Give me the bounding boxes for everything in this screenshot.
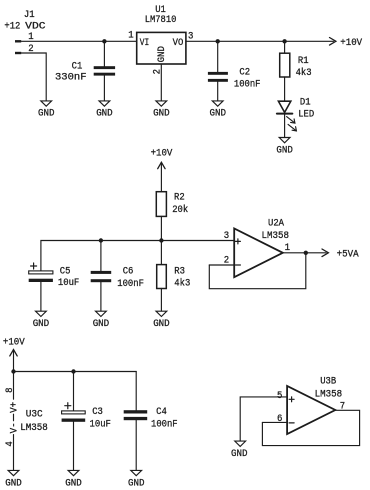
svg-text:VDC: VDC	[25, 22, 45, 33]
svg-text:1: 1	[128, 31, 133, 42]
ground R3	[156, 311, 167, 316]
wire U3B pin6	[262, 421, 287, 423]
wire R3 top	[160, 241, 162, 265]
svg-text:VO: VO	[173, 38, 184, 49]
svg-text:U2A: U2A	[268, 218, 284, 229]
power arrow +5VA	[322, 249, 328, 257]
svg-text:4k3: 4k3	[296, 67, 312, 79]
wire C3 to GND	[73, 422, 75, 470]
wire C6 top	[100, 241, 102, 271]
svg-text:20k: 20k	[172, 204, 188, 216]
junction U3C rail	[11, 369, 15, 373]
junction C1/J1	[102, 39, 106, 43]
svg-text:2: 2	[224, 255, 229, 266]
resistor R1 body	[280, 53, 290, 77]
capacitor C2 plates	[208, 72, 228, 82]
ground C2	[212, 101, 223, 106]
svg-text:4: 4	[5, 441, 16, 446]
op-amp U2A plus input mark	[235, 239, 240, 244]
svg-text:+10V: +10V	[3, 337, 25, 348]
power arrow +10V top right	[330, 38, 336, 46]
capacitor C3 plus sign	[65, 403, 71, 409]
svg-text:LED: LED	[298, 110, 314, 121]
svg-text:100nF: 100nF	[151, 419, 178, 430]
svg-text:LM358: LM358	[315, 390, 343, 401]
svg-text:8: 8	[5, 388, 16, 393]
svg-text:C4: C4	[156, 407, 167, 418]
svg-text:C3: C3	[92, 407, 103, 418]
wire C6 to GND	[100, 282, 102, 311]
op-amp U3B body	[287, 386, 335, 434]
svg-text:GND: GND	[276, 145, 293, 156]
wire U1 VO to +10V	[186, 40, 334, 42]
wire bottom bus	[14, 371, 137, 373]
connector J1 pad 1	[15, 40, 21, 42]
svg-text:100nF: 100nF	[234, 80, 261, 91]
wire U3C power rail	[13, 350, 15, 400]
svg-text:LM358: LM358	[262, 231, 290, 242]
svg-text:GND: GND	[33, 319, 50, 330]
svg-text:3: 3	[188, 31, 193, 42]
svg-text:D1: D1	[300, 98, 311, 109]
svg-text:C2: C2	[239, 67, 250, 78]
op-amp U3B plus input mark	[289, 397, 294, 402]
wire U3B feedback	[262, 410, 359, 445]
svg-text:1: 1	[28, 32, 33, 43]
svg-text:GND: GND	[93, 319, 110, 330]
ground U3B	[235, 441, 246, 446]
svg-text:U3C: U3C	[26, 409, 43, 420]
svg-text:GND: GND	[5, 478, 22, 489]
wire U2A output	[283, 252, 326, 254]
svg-text:2: 2	[153, 69, 164, 74]
svg-text:R3: R3	[174, 267, 185, 278]
ground C1	[99, 101, 110, 106]
capacitor C6 plates	[91, 271, 112, 282]
svg-text:C6: C6	[123, 266, 134, 277]
resistor R2 body	[156, 192, 166, 217]
op-amp U3B minus input mark	[289, 422, 294, 424]
svg-text:LM358: LM358	[20, 423, 48, 434]
ground symbols	[8, 101, 290, 476]
capacitor C5 bottom plate	[29, 279, 53, 282]
svg-text:+10V: +10V	[151, 149, 173, 160]
wire C4 drop	[135, 372, 137, 411]
capacitor C4 plates	[124, 410, 148, 420]
wire R2 to bus	[160, 216, 162, 240]
LED D1 cathode bar	[277, 113, 292, 115]
junction R2/R3	[159, 238, 163, 242]
svg-text:2: 2	[28, 44, 33, 55]
capacitor C5 top plate	[29, 271, 53, 274]
wire R3 to GND	[160, 289, 162, 311]
wire U1 pin2 to GND	[160, 64, 162, 101]
wire C2 top	[217, 41, 219, 72]
capacitor C5 plus sign	[31, 263, 37, 269]
svg-text:GND: GND	[153, 109, 170, 120]
svg-text:100nF: 100nF	[117, 279, 144, 290]
ground U3C	[8, 470, 19, 475]
wire +10V to R2	[160, 162, 162, 191]
wire R1 to D1	[284, 77, 286, 101]
ground C4	[131, 470, 142, 475]
ground C6	[96, 311, 107, 316]
wire C5 to GND	[40, 282, 42, 311]
svg-text:+5VA: +5VA	[337, 249, 359, 260]
svg-text:U3B: U3B	[320, 377, 336, 388]
svg-text:GND: GND	[231, 449, 248, 460]
wire C1 bottom	[103, 76, 105, 101]
LED D1 emission arrow 1	[287, 117, 295, 124]
wire C2 bottom	[217, 82, 219, 101]
svg-text:C1: C1	[72, 62, 83, 73]
svg-text:10uF: 10uF	[58, 278, 79, 289]
capacitor C1 plates	[94, 66, 115, 75]
junction R1	[282, 39, 286, 43]
junction C3	[71, 369, 75, 373]
LED D1 emission arrow 2	[288, 124, 296, 130]
op-amp U2A minus input mark	[235, 264, 240, 266]
ground U1	[156, 101, 167, 106]
wire J1 pin1 to U1 VI	[21, 40, 136, 42]
svg-text:5: 5	[277, 391, 282, 402]
wire R1 top	[284, 41, 286, 53]
wire J1 pin2 to GND	[21, 53, 46, 101]
svg-text:+10V: +10V	[340, 38, 362, 49]
resistor R3 body	[157, 265, 167, 289]
capacitor C3 bottom plate	[62, 419, 86, 422]
svg-text:6: 6	[277, 414, 282, 425]
svg-text:3: 3	[224, 231, 229, 242]
connector J1 pad 2	[15, 52, 21, 54]
ground J1	[41, 101, 52, 106]
ground C3	[68, 470, 79, 475]
svg-text:330nF: 330nF	[55, 73, 87, 84]
svg-text:V+: V+	[9, 402, 20, 413]
svg-text:1: 1	[285, 243, 290, 254]
wire D1 to GND	[284, 115, 286, 138]
svg-text:LM7810: LM7810	[145, 15, 177, 26]
svg-text:4k3: 4k3	[174, 277, 190, 289]
svg-text:GND: GND	[157, 46, 168, 62]
capacitor C3 top plate	[62, 411, 86, 414]
power arrow +10V bottom left	[10, 350, 17, 356]
svg-text:10uF: 10uF	[90, 419, 111, 430]
svg-text:GND: GND	[38, 109, 55, 120]
power arrow +10V middle	[158, 162, 165, 168]
svg-text:+12: +12	[4, 22, 20, 33]
wire U2A feedback	[209, 253, 305, 289]
svg-text:GND: GND	[65, 478, 82, 489]
wire C3 top	[73, 372, 75, 411]
svg-text:VI: VI	[140, 38, 150, 49]
svg-text:V-: V-	[9, 422, 20, 433]
junction C2	[216, 39, 220, 43]
LED D1 triangle	[278, 101, 290, 112]
junction C6	[99, 238, 103, 242]
wire U2A pin2	[209, 264, 234, 266]
svg-text:7: 7	[340, 402, 345, 413]
wire C4 to GND	[135, 420, 137, 470]
svg-text:J1: J1	[24, 10, 35, 21]
regulator U1 body	[137, 32, 186, 64]
svg-text:GND: GND	[153, 319, 170, 330]
wire C1 top	[103, 41, 105, 66]
op-amp U2A body	[234, 229, 283, 278]
svg-text:GND: GND	[96, 109, 113, 120]
junction U2A output	[304, 251, 308, 255]
wire noninverting bus	[41, 241, 234, 271]
svg-text:R1: R1	[298, 56, 309, 67]
ground D1	[279, 138, 290, 143]
svg-text:GND: GND	[210, 109, 227, 120]
ground C5	[36, 311, 47, 316]
svg-text:C5: C5	[60, 267, 71, 278]
wire U3B pin5	[240, 397, 287, 441]
svg-text:GND: GND	[128, 478, 145, 489]
svg-text:R2: R2	[174, 192, 185, 203]
